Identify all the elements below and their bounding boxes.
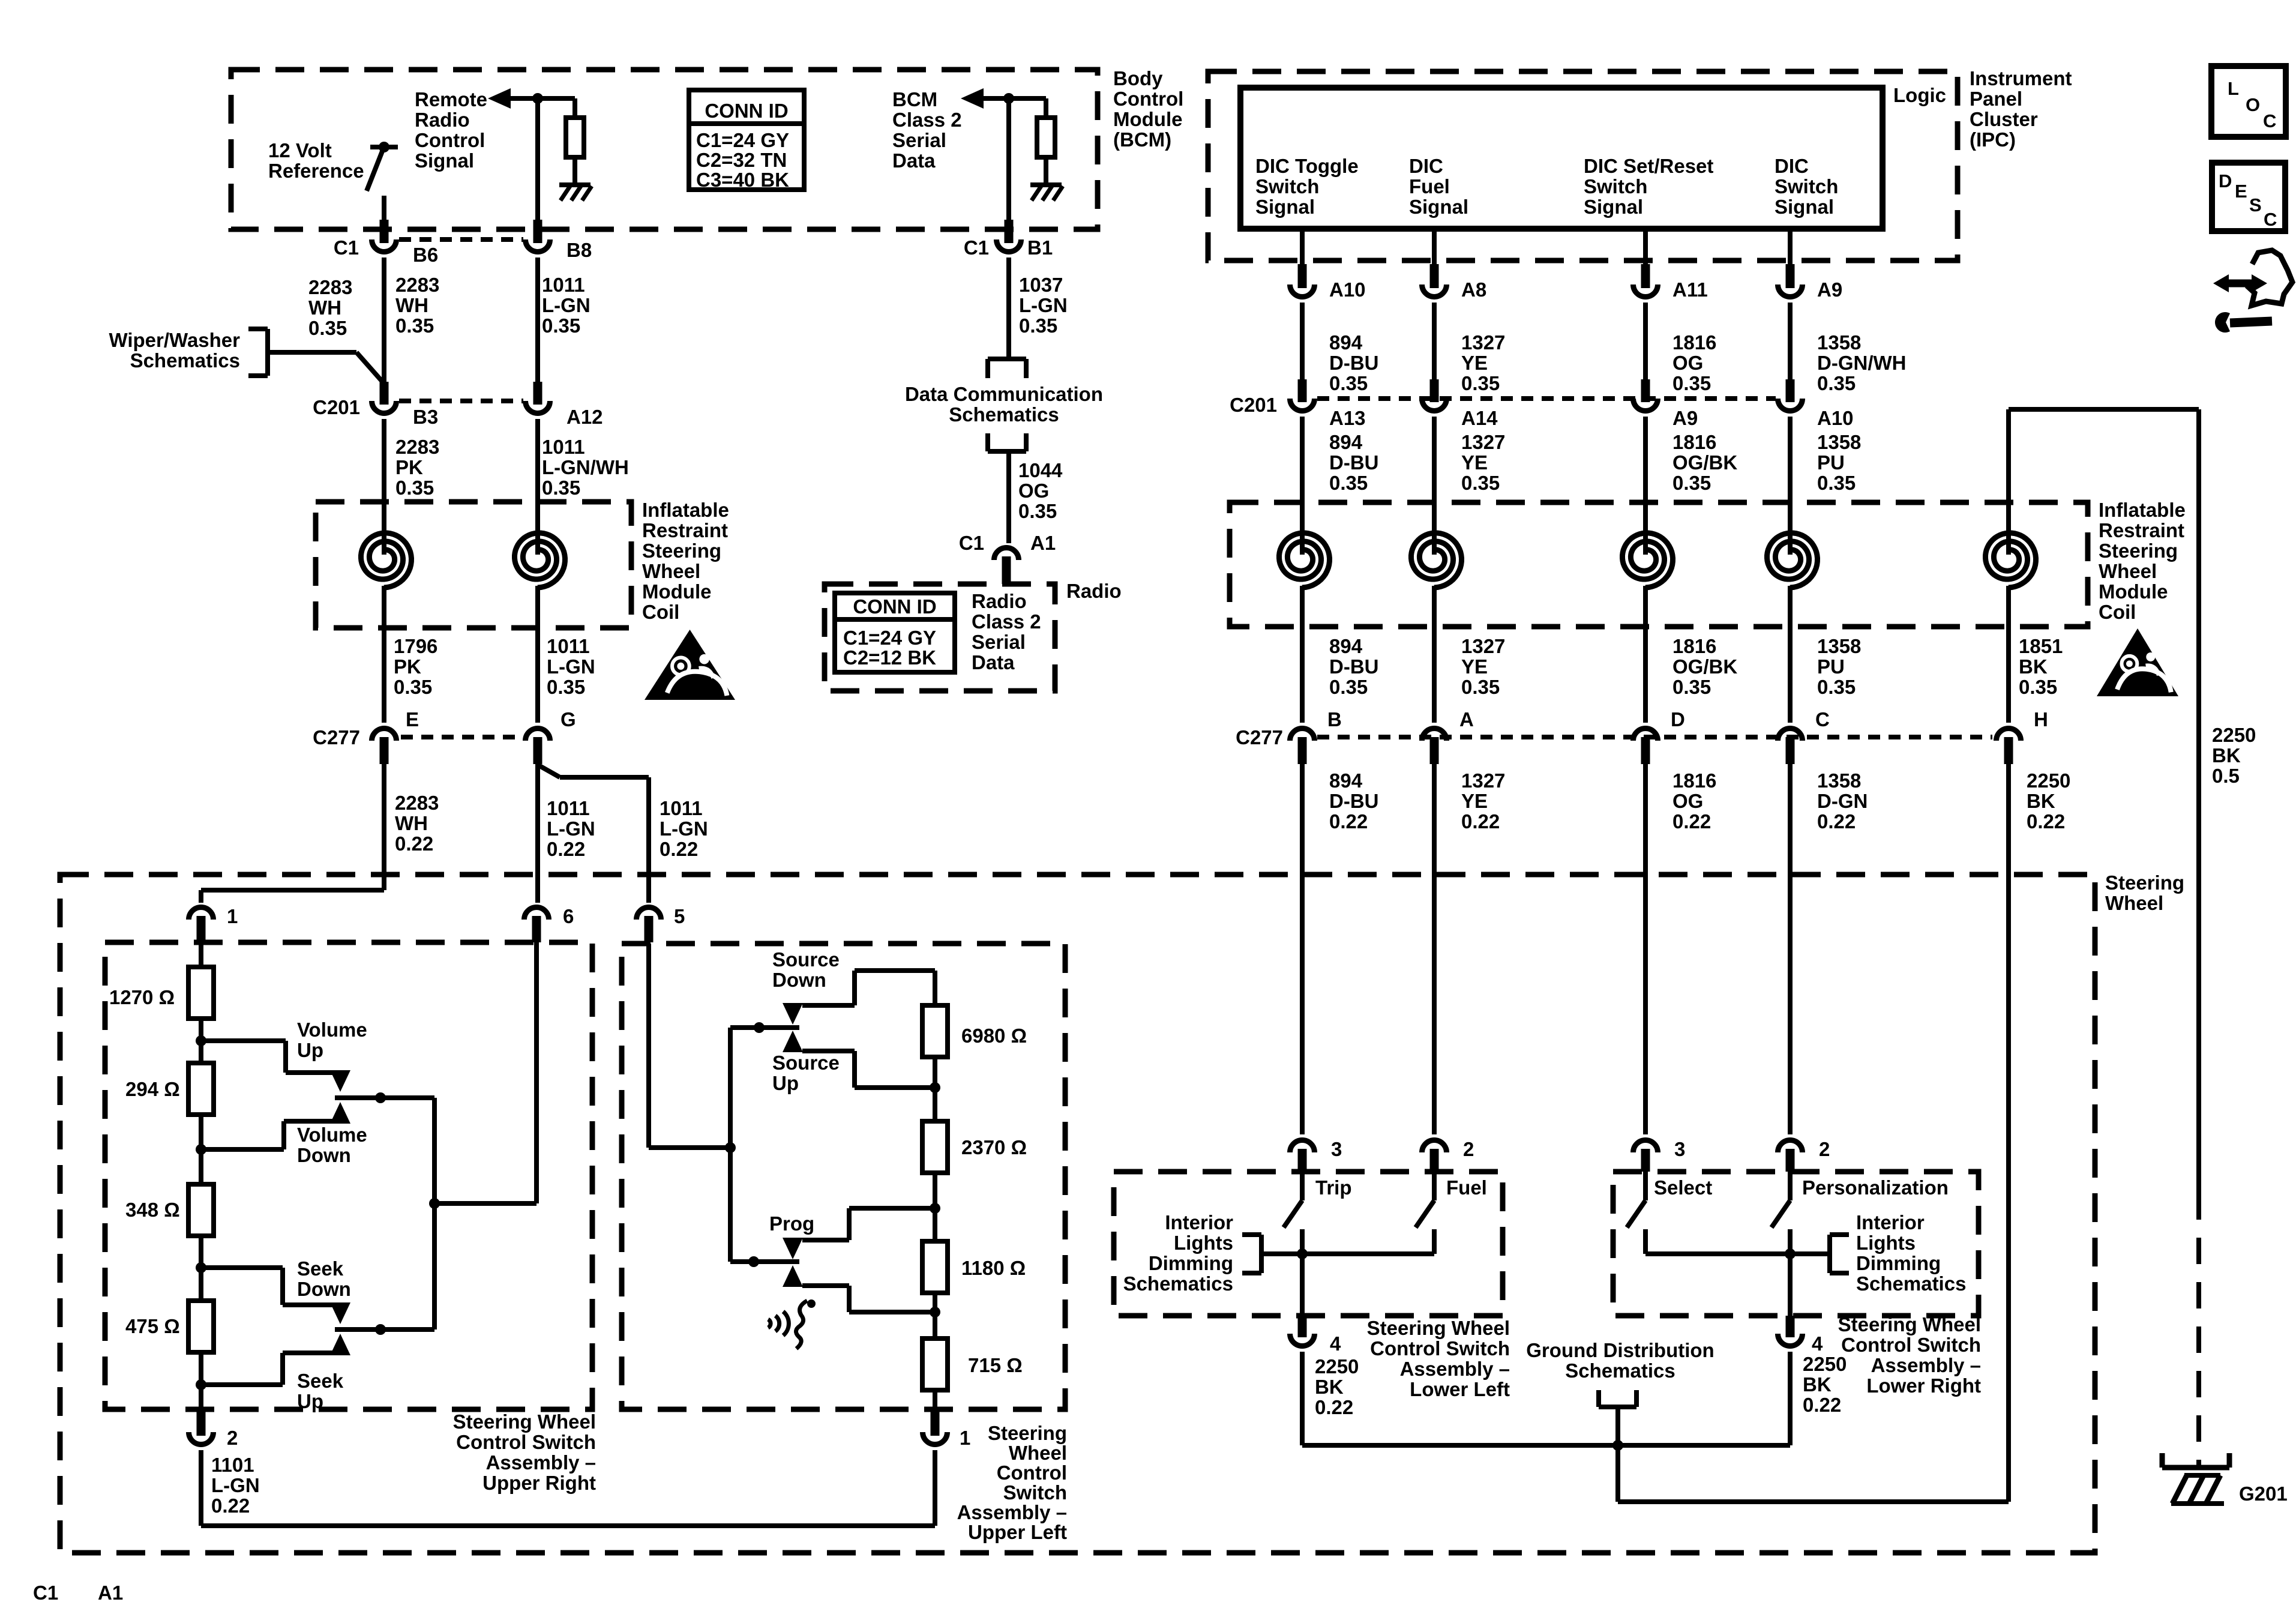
svg-text:0.35: 0.35 [1672, 472, 1711, 494]
coil SIR right 1 [1300, 527, 1305, 555]
wire R348 to R475 [199, 1236, 203, 1302]
svg-text:(IPC): (IPC) [1970, 128, 2016, 151]
svg-text:A13: A13 [1329, 407, 1366, 429]
node junction volume up [196, 1035, 206, 1046]
wire source common [730, 1025, 799, 1030]
Steering Wheel Control Switch Assembly Upper Right box [105, 942, 592, 1409]
svg-text:Steering: Steering [988, 1422, 1067, 1444]
svg-text:Fuel: Fuel [1446, 1176, 1487, 1199]
wire R294 to R348 [199, 1115, 203, 1185]
svg-text:Radio: Radio [415, 109, 470, 131]
connector C277 row dotted line (left) [401, 735, 521, 739]
svg-text:Serial: Serial [892, 129, 946, 151]
svg-text:Control: Control [997, 1462, 1067, 1484]
svg-text:Control Switch: Control Switch [1370, 1337, 1510, 1360]
svg-text:PU: PU [1817, 451, 1845, 474]
svg-text:BK: BK [2212, 744, 2241, 766]
node volume common dot [375, 1092, 386, 1103]
connector C1 pin B6 stub [380, 220, 389, 243]
wire BCM serial arrow [961, 88, 984, 109]
connector pin 6 stub [532, 916, 541, 942]
ground BCM right [1030, 182, 1062, 187]
resistor BCM pull-up left [566, 118, 584, 157]
svg-text:894: 894 [1329, 635, 1363, 657]
wire IPC output col2 [1432, 229, 1437, 268]
icon DESC box [2212, 163, 2285, 231]
svg-text:OG: OG [1672, 352, 1703, 374]
svg-text:BK: BK [2027, 790, 2055, 812]
svg-text:C1=24 GY: C1=24 GY [843, 627, 936, 649]
resistor 475 [188, 1301, 214, 1352]
connector C201 pin A12 [526, 401, 550, 413]
svg-text:1270 Ω: 1270 Ω [109, 986, 175, 1008]
connector C277 pin C [1778, 728, 1803, 741]
wire col4 C201 to coil [1788, 417, 1793, 532]
svg-text:Assembly –: Assembly – [486, 1451, 596, 1474]
ground G201 symbol [2162, 1465, 2229, 1471]
svg-text:1: 1 [227, 905, 238, 927]
wire prog lower feed [802, 1283, 849, 1288]
connector C277 pin E [372, 729, 397, 741]
wire pin4 left to ground bus [1300, 1352, 1305, 1445]
svg-text:Steering Wheel: Steering Wheel [453, 1411, 596, 1433]
svg-text:0.35: 0.35 [547, 676, 585, 698]
connector IPC A9 stub [1786, 264, 1795, 288]
svg-text:1327: 1327 [1461, 635, 1505, 657]
connector pin 2 col2 [1422, 1140, 1447, 1152]
svg-text:1101: 1101 [211, 1454, 254, 1476]
svg-text:Lower Right: Lower Right [1866, 1375, 1981, 1397]
Radio dashed box [825, 584, 1055, 691]
node pin5 bus dot [725, 1142, 736, 1153]
SIR warning triangle right [2097, 628, 2178, 696]
connector C201 pin B3 stub [380, 382, 389, 405]
wire source/prog bus [728, 1028, 733, 1262]
wire R2370 to R1180 [933, 1173, 937, 1242]
wire seek up feed [201, 1382, 283, 1387]
Steering Wheel Control Switch Assembly Upper Left box [622, 944, 1065, 1409]
node junction B8/resistor [532, 93, 543, 104]
svg-text:1037: 1037 [1019, 274, 1063, 296]
svg-text:Schematics: Schematics [1123, 1272, 1233, 1295]
svg-text:0.35: 0.35 [394, 676, 432, 698]
wire remote radio horizontal [509, 96, 575, 101]
wire R6980 to R2370 [933, 1057, 937, 1122]
svg-text:L: L [2228, 78, 2239, 99]
svg-text:G201: G201 [2239, 1483, 2288, 1505]
svg-text:C: C [1815, 708, 1830, 730]
connector pin 2 [189, 1432, 214, 1444]
coil SIR right 2 [1432, 527, 1437, 555]
connector C1 pin B8 stub [533, 220, 542, 243]
switch source down arrow [783, 1003, 803, 1025]
svg-text:YE: YE [1461, 790, 1488, 812]
connector pin 6 [524, 908, 549, 920]
svg-text:Class 2: Class 2 [972, 610, 1041, 633]
bracket ground distribution [1596, 1390, 1601, 1407]
svg-text:1327: 1327 [1461, 331, 1505, 354]
svg-text:894: 894 [1329, 769, 1363, 792]
svg-text:0.22: 0.22 [1672, 810, 1711, 833]
svg-text:CONN ID: CONN ID [705, 100, 788, 122]
connector C277 pin A [1422, 729, 1447, 741]
svg-text:1044: 1044 [1018, 459, 1063, 481]
svg-text:Seek: Seek [297, 1370, 344, 1392]
bracket data communication bottom [988, 449, 1026, 454]
svg-text:C1: C1 [964, 236, 989, 259]
svg-text:1358: 1358 [1817, 769, 1861, 792]
connector pin 2 col4 stub [1786, 1149, 1795, 1172]
svg-text:6: 6 [563, 905, 574, 927]
svg-text:0.35: 0.35 [1461, 372, 1500, 394]
coil SIR left 2 [535, 527, 540, 555]
svg-text:C1: C1 [959, 532, 984, 554]
wire IPC output col3 [1643, 229, 1648, 268]
svg-text:Select: Select [1654, 1176, 1712, 1199]
svg-text:A1: A1 [98, 1582, 123, 1604]
wire source down feed [802, 1003, 855, 1008]
svg-text:1011: 1011 [660, 797, 703, 819]
svg-text:A9: A9 [1817, 279, 1842, 301]
svg-text:G: G [560, 708, 576, 730]
svg-text:Switch: Switch [1255, 175, 1319, 197]
coil SIR left 1 [382, 527, 386, 555]
wire switch common bus [432, 1098, 437, 1329]
svg-text:YE: YE [1461, 655, 1488, 678]
svg-text:Cluster: Cluster [1970, 108, 2038, 130]
bracket data communication top [988, 357, 1026, 361]
wire 1037 L-GN B1 to bracket [1006, 257, 1011, 359]
wire H into coil [2006, 409, 2011, 532]
connector C201 pin B3 [372, 401, 397, 413]
Body Control Module (BCM) dashed box [231, 70, 1098, 229]
switch prog arrow upper [783, 1238, 803, 1259]
bracket interior lights left [1259, 1235, 1264, 1273]
svg-text:0.22: 0.22 [1803, 1394, 1841, 1416]
Inflatable Restraint Steering Wheel Module Coil box (left) [316, 502, 631, 628]
switch Trip blade [1284, 1200, 1302, 1227]
svg-text:A10: A10 [1329, 279, 1366, 301]
connector IPC A11 stub [1641, 264, 1650, 288]
svg-text:Data: Data [892, 149, 936, 172]
svg-text:S: S [2249, 194, 2262, 215]
svg-text:C201: C201 [1230, 394, 1277, 416]
svg-text:Down: Down [297, 1278, 351, 1300]
svg-text:L-GN/WH: L-GN/WH [542, 456, 629, 478]
svg-text:1816: 1816 [1672, 635, 1716, 657]
svg-text:1816: 1816 [1672, 769, 1716, 792]
svg-text:D-BU: D-BU [1329, 790, 1378, 812]
svg-text:294 Ω: 294 Ω [125, 1078, 180, 1100]
wire H top horizontal [2009, 407, 2199, 412]
svg-text:B8: B8 [566, 239, 592, 261]
svg-text:A8: A8 [1461, 279, 1486, 301]
svg-text:2250: 2250 [1315, 1355, 1359, 1378]
svg-text:Interior: Interior [1165, 1211, 1233, 1233]
connector C201 pin A13 (right) [1290, 399, 1315, 411]
svg-text:2250: 2250 [2027, 769, 2070, 792]
connector C277 pin G stub [533, 737, 542, 764]
switch Personalization blade [1772, 1200, 1790, 1227]
svg-text:Restraint: Restraint [2099, 519, 2184, 541]
wire 1044 OG [1006, 451, 1011, 543]
wire volume down feed [201, 1147, 284, 1152]
svg-text:2283: 2283 [395, 436, 439, 458]
node 12V reference contact dot [379, 142, 389, 152]
svg-text:C3=40 BK: C3=40 BK [696, 169, 789, 191]
svg-text:Signal: Signal [1255, 196, 1315, 218]
wire R1180 to R715 [933, 1293, 937, 1340]
wire interior lights right [1790, 1251, 1830, 1256]
node ground bus dot [1612, 1440, 1623, 1451]
svg-text:PK: PK [394, 655, 421, 678]
svg-text:Class 2: Class 2 [892, 109, 962, 131]
svg-text:1358: 1358 [1817, 431, 1861, 453]
svg-text:0.35: 0.35 [1018, 500, 1057, 522]
svg-text:0.22: 0.22 [547, 838, 585, 860]
Instrument Panel Cluster dashed box [1208, 71, 1958, 260]
svg-text:D-BU: D-BU [1329, 451, 1378, 474]
svg-text:2283: 2283 [308, 276, 352, 298]
node junction seek up [196, 1379, 206, 1390]
wire ground bus [1302, 1443, 1790, 1448]
svg-text:DIC: DIC [1775, 155, 1809, 177]
connector C277 pin H [1997, 728, 2021, 741]
svg-text:D: D [2219, 170, 2232, 191]
connector pin 4 (lower right) stub [1786, 1316, 1795, 1337]
connector C201 row dotted line (left) [399, 399, 523, 403]
svg-text:0.22: 0.22 [395, 833, 433, 855]
svg-text:1851: 1851 [2019, 635, 2063, 657]
svg-text:0.35: 0.35 [1461, 676, 1500, 698]
svg-text:715 Ω: 715 Ω [968, 1354, 1023, 1376]
svg-text:A: A [1459, 708, 1474, 730]
wire B1 vertical inside BCM [1006, 98, 1011, 221]
wire col1 C277 to switch [1300, 764, 1305, 1134]
svg-text:DIC Set/Reset: DIC Set/Reset [1584, 155, 1713, 177]
svg-text:2250: 2250 [1803, 1353, 1847, 1375]
node trip junction [1297, 1248, 1308, 1259]
wire 2250 BK dashed to G201 [2196, 1193, 2201, 1468]
connector pin 3 col3 [1633, 1140, 1658, 1152]
wire col3 C201 to coil [1643, 417, 1648, 532]
resistor 6980 [922, 1005, 948, 1057]
wire R1270 to R294 [199, 1019, 203, 1064]
wire IPC output col1 [1300, 229, 1305, 268]
wire ground bus to H column [1618, 1499, 2009, 1504]
svg-text:L-GN: L-GN [547, 818, 595, 840]
Steering Wheel Control Switch Assembly Lower Left box [1114, 1172, 1503, 1316]
svg-text:Instrument: Instrument [1970, 67, 2072, 89]
svg-text:Steering Wheel: Steering Wheel [1838, 1313, 1981, 1335]
connector IPC pin A8 [1422, 285, 1447, 297]
svg-text:BK: BK [1803, 1373, 1832, 1396]
svg-text:Up: Up [297, 1390, 323, 1412]
svg-text:12 Volt: 12 Volt [268, 139, 332, 161]
svg-text:0.35: 0.35 [395, 315, 434, 337]
switch source up arrow [783, 1031, 803, 1052]
svg-text:B1: B1 [1027, 236, 1053, 259]
node prog lower junction [930, 1307, 940, 1317]
connector pin 3 col3 stub [1641, 1149, 1650, 1172]
wire 2283 PK to coil [382, 419, 386, 532]
svg-text:D: D [1671, 708, 1685, 730]
svg-text:E: E [2235, 181, 2247, 202]
resistor 715 [922, 1338, 948, 1390]
connector pin 4 (lower left) stub [1298, 1316, 1307, 1337]
svg-text:C1=24 GY: C1=24 GY [696, 129, 789, 151]
svg-text:Dimming: Dimming [1149, 1252, 1233, 1274]
svg-text:Schematics: Schematics [1856, 1272, 1966, 1295]
CONN ID table BCM [689, 90, 804, 190]
wire IPC output col4 [1788, 229, 1793, 268]
svg-text:0.35: 0.35 [1461, 472, 1500, 494]
svg-text:Ground Distribution: Ground Distribution [1526, 1339, 1714, 1361]
node junction seek down [196, 1262, 206, 1273]
svg-text:OG: OG [1672, 790, 1703, 812]
svg-text:A9: A9 [1672, 407, 1698, 429]
node common bus to pin6 dot [429, 1198, 440, 1209]
wire col3 to C201 [1643, 303, 1648, 379]
switch volume down arrow [330, 1102, 350, 1124]
svg-text:0.22: 0.22 [660, 838, 698, 860]
svg-text:1816: 1816 [1672, 331, 1716, 354]
svg-text:WH: WH [308, 297, 341, 319]
wire B8 vertical inside BCM [535, 98, 540, 221]
Logic box [1240, 88, 1883, 229]
svg-text:5: 5 [674, 905, 685, 927]
wire to BCM pullup resistor left [572, 98, 577, 119]
svg-text:475 Ω: 475 Ω [125, 1315, 180, 1337]
wire personalization upper [1788, 1172, 1793, 1200]
svg-text:Remote: Remote [415, 88, 487, 110]
svg-text:0.22: 0.22 [1329, 810, 1368, 833]
svg-text:C: C [2263, 110, 2276, 131]
svg-text:0.35: 0.35 [1329, 372, 1368, 394]
wire seek common [335, 1327, 434, 1332]
svg-text:OG/BK: OG/BK [1672, 451, 1737, 474]
svg-text:1011: 1011 [542, 436, 585, 458]
svg-text:Control: Control [415, 129, 485, 151]
svg-text:Switch: Switch [1584, 175, 1647, 197]
svg-text:CONN ID: CONN ID [853, 595, 936, 618]
wire source up feed [802, 1049, 855, 1053]
svg-text:PU: PU [1817, 655, 1845, 678]
wire 2283 WH inside BCM [382, 196, 386, 221]
svg-text:Coil: Coil [2099, 601, 2136, 623]
wire trip lower [1300, 1229, 1305, 1254]
svg-text:OG: OG [1018, 480, 1049, 502]
coil SIR right 5 [2006, 527, 2011, 555]
svg-text:2: 2 [227, 1427, 238, 1449]
svg-text:A14: A14 [1461, 407, 1498, 429]
connector C201 pin A12 stub [533, 382, 542, 405]
wire col3 coil exit [1643, 586, 1648, 723]
svg-text:Logic: Logic [1893, 84, 1946, 106]
svg-text:2283: 2283 [395, 274, 439, 296]
wire pin1(UL) to bottom [933, 1450, 937, 1526]
connector IPC pin A10 [1290, 285, 1315, 297]
svg-text:Dimming: Dimming [1856, 1252, 1941, 1274]
svg-text:Control Switch: Control Switch [456, 1431, 596, 1453]
wire 1011 L-GN/WH to coil [535, 419, 540, 532]
svg-text:Signal: Signal [1584, 196, 1643, 218]
svg-text:C2=12 BK: C2=12 BK [843, 646, 936, 669]
coil SIR right 3 [1643, 527, 1648, 555]
wire 2283 WH into steering wheel [382, 764, 386, 890]
connector pin 1 stub [197, 916, 206, 942]
wire H C277 to ground run [2006, 764, 2011, 1502]
svg-text:BK: BK [2019, 655, 2048, 678]
connector C277 row dotted line (right) [1317, 735, 1992, 739]
Inflatable Restraint Steering Wheel Module Coil box (right) [1230, 502, 2088, 627]
wire personalization lower [1788, 1229, 1793, 1316]
svg-text:Module: Module [1113, 108, 1182, 130]
connector radio pin A1 stub [1002, 556, 1011, 584]
connector C277 pin D [1633, 728, 1658, 741]
svg-text:Module: Module [2099, 580, 2168, 603]
icon voice recognition [783, 1311, 789, 1335]
svg-text:Interior: Interior [1856, 1211, 1925, 1233]
connector pin 2 stub [197, 1409, 206, 1436]
svg-text:Down: Down [772, 969, 826, 991]
svg-text:L-GN: L-GN [1019, 294, 1068, 316]
wire 1011 L-GN to pin6 [535, 764, 540, 903]
resistor 348 [188, 1184, 214, 1236]
svg-text:OG/BK: OG/BK [1672, 655, 1737, 678]
svg-text:A11: A11 [1672, 279, 1708, 301]
svg-text:D-BU: D-BU [1329, 655, 1378, 678]
node source common dot [754, 1022, 765, 1033]
connector C201 pin A10 (right) [1778, 399, 1803, 411]
connector IPC A10 stub [1298, 264, 1307, 288]
svg-text:Module: Module [642, 580, 711, 603]
wire coil1 exit [382, 586, 386, 723]
svg-text:Up: Up [297, 1039, 323, 1061]
svg-text:Panel: Panel [1970, 88, 2022, 110]
svg-text:Restraint: Restraint [642, 519, 728, 541]
wire select upper [1643, 1172, 1648, 1200]
wire col4 C277 to switch [1788, 764, 1793, 1134]
connector C201 pin A9 (right) [1633, 399, 1658, 411]
svg-text:0.35: 0.35 [2019, 676, 2057, 698]
svg-text:C1: C1 [33, 1582, 58, 1604]
svg-text:0.35: 0.35 [542, 315, 580, 337]
wire select lower [1643, 1229, 1648, 1254]
svg-text:Serial: Serial [972, 631, 1026, 653]
svg-text:6980 Ω: 6980 Ω [961, 1025, 1027, 1047]
wire 1011 L-GN branch to pin5 [536, 764, 560, 777]
svg-text:0.22: 0.22 [211, 1495, 250, 1517]
svg-text:DIC Toggle: DIC Toggle [1255, 155, 1359, 177]
connector C277 pin D stub [1641, 737, 1650, 764]
svg-text:Signal: Signal [1775, 196, 1834, 218]
ground BCM left [559, 182, 591, 187]
svg-text:0.22: 0.22 [1461, 810, 1500, 833]
svg-text:YE: YE [1461, 352, 1488, 374]
svg-text:YE: YE [1461, 451, 1488, 474]
wire fuel upper [1432, 1172, 1437, 1200]
connector C277 pin G [526, 729, 550, 741]
svg-text:Coil: Coil [642, 601, 679, 623]
svg-text:348 Ω: 348 Ω [125, 1199, 180, 1221]
svg-text:Fuel: Fuel [1409, 175, 1450, 197]
svg-text:Steering: Steering [642, 540, 721, 562]
wire remote radio arrow [488, 88, 511, 109]
connector C1 row dotted line [399, 237, 523, 242]
svg-text:D-GN/WH: D-GN/WH [1817, 352, 1906, 374]
node source up junction [930, 1082, 940, 1093]
